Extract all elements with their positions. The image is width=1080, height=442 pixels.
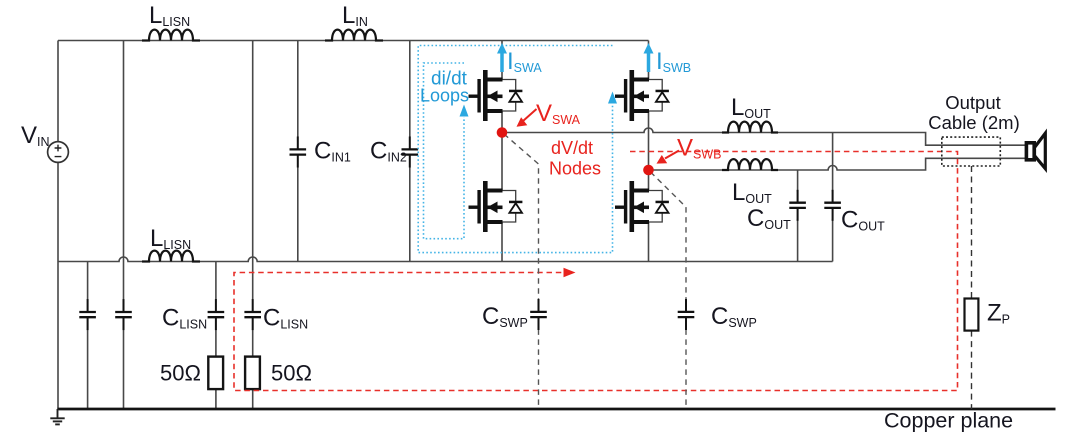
wire return rail — [58, 257, 833, 262]
impedance ZP — [965, 299, 979, 331]
svg-text:50Ω: 50Ω — [271, 361, 312, 386]
wire top rail — [58, 40, 649, 42]
output cable dotted box — [942, 137, 1001, 166]
wire VIN branch — [57, 41, 59, 410]
wire COUT1 branch — [797, 170, 799, 262]
node VSWA — [497, 127, 508, 138]
grey dashed VSWB to CSWP2 — [651, 172, 687, 409]
arrow to VSWA — [517, 109, 537, 127]
resistor 50ohm 2 — [245, 357, 260, 390]
capacitor CSWP1 — [530, 299, 547, 330]
red dvdt loop dashed — [234, 152, 958, 391]
di/dt outer loop box — [418, 46, 612, 253]
wire LISN cap branch x=87.6 — [87, 262, 89, 410]
wire CIN2 branch — [409, 41, 411, 262]
wire VSWB output line — [649, 158, 1027, 170]
ground — [50, 409, 64, 424]
transistor M1 — [469, 70, 523, 121]
svg-text:Loops: Loops — [420, 86, 469, 106]
resistor 50ohm 1 — [208, 357, 223, 390]
capacitor COUT2 — [824, 190, 841, 221]
svg-text:Nodes: Nodes — [549, 159, 601, 179]
di/dt inner loop box — [424, 63, 465, 239]
capacitor lisn left 2 — [115, 299, 132, 330]
capacitor lisn left 1 — [79, 299, 96, 330]
svg-text:50Ω: 50Ω — [160, 361, 201, 386]
arrow ISWB — [644, 43, 654, 72]
transistor M4 — [615, 181, 669, 232]
red dvdt loop arrowhead — [564, 268, 576, 277]
svg-text:Cable (2m): Cable (2m) — [928, 112, 1020, 133]
inductor LIN — [325, 30, 383, 41]
inductor LOUT bottom — [722, 159, 778, 170]
wire CLISN2 branch x=252.7 — [252, 41, 254, 410]
transistor M3 — [615, 70, 669, 121]
speaker — [1026, 133, 1045, 168]
grey dashed VSWA to CSWP1 — [504, 134, 539, 409]
capacitor CIN2 — [402, 137, 419, 168]
inductor LOUT top — [722, 122, 778, 133]
wire COUT2 branch — [832, 133, 834, 262]
node VSWB — [643, 165, 654, 176]
capacitor CSWP2 — [678, 299, 695, 330]
arrow ISWA — [497, 43, 507, 72]
wire CIN1 branch — [297, 41, 299, 262]
capacitor CLISN2 — [244, 299, 261, 330]
di/dt outer loop arrowhead — [608, 92, 617, 104]
arrow to VSWB — [657, 151, 680, 164]
capacitor COUT1 — [789, 190, 806, 221]
wire bridge right leg — [648, 41, 650, 262]
inductor LLISN bottom — [142, 251, 200, 262]
wire bridge left leg — [501, 41, 503, 262]
source VIN — [48, 142, 69, 163]
copper plane line — [58, 408, 1056, 411]
inductor LLISN top — [142, 30, 200, 41]
di/dt inner loop arrowhead — [460, 105, 469, 117]
svg-text:Output: Output — [945, 92, 1001, 113]
capacitor CLISN1 — [208, 299, 225, 330]
transistor M2 — [469, 181, 523, 232]
svg-text:dV/dt: dV/dt — [551, 138, 593, 158]
wire LISN cap branch x=123.5 — [123, 41, 125, 410]
black dashed ZP line — [971, 166, 973, 409]
capacitor CIN1 — [290, 137, 307, 168]
svg-text:Copper plane: Copper plane — [884, 409, 1013, 433]
wire CLISN1 branch x=215.9 — [215, 262, 217, 410]
wire VSWA output line — [502, 128, 1026, 145]
